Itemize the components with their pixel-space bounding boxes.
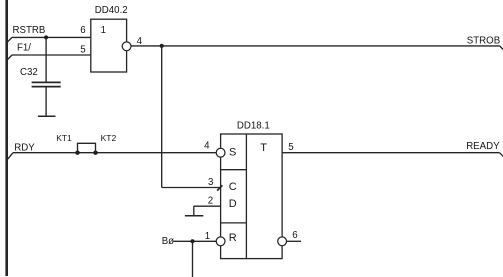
trigger DD18.1 body	[221, 134, 283, 259]
svg-text:DD18.1: DD18.1	[237, 120, 270, 131]
wire DD18.1 pin 5 output to READY	[282, 152, 500, 154]
wire F1/ to DD40.2 pin 5	[12, 54, 91, 56]
svg-text:F1/: F1/	[17, 43, 31, 54]
node junction on RSTRB wire	[44, 35, 48, 39]
contact bracket between KT1 and KT2	[78, 143, 96, 152]
bus (left vertical bus line)	[5, 0, 8, 276]
svg-text:READY: READY	[466, 141, 500, 152]
wire B0 to R input	[174, 240, 217, 242]
wire STROB bus exit diagonal	[500, 46, 503, 51]
wire F1/ bus entry diagonal	[7, 55, 12, 60]
node junction on STROB wire	[160, 44, 164, 48]
svg-text:6: 6	[80, 25, 85, 36]
svg-text:D: D	[229, 198, 237, 210]
contact KT1 dot	[75, 151, 79, 155]
wire junction down to C input	[161, 46, 163, 188]
pin 4 inversion bubble of DD40.2	[122, 42, 131, 51]
svg-text:2: 2	[208, 195, 213, 206]
svg-text:T: T	[260, 142, 267, 154]
svg-text:4: 4	[137, 36, 143, 47]
wire DD40.2 output to STROB	[131, 45, 500, 47]
DD18.1 inner divider vertical	[245, 134, 247, 259]
ground (under C32)	[38, 115, 56, 117]
svg-text:RSTRB: RSTRB	[13, 25, 46, 36]
svg-text:Bø: Bø	[162, 236, 174, 247]
wire C32 to ground	[45, 87, 47, 116]
dynamic input slash at C	[217, 185, 222, 190]
svg-text:C32: C32	[20, 67, 38, 78]
svg-text:4: 4	[204, 141, 210, 152]
contact KT2 dot	[93, 151, 97, 155]
ground (at D input)	[185, 215, 203, 217]
wire READY bus exit diagonal	[500, 153, 503, 158]
DD18.1 divider above R cell	[221, 222, 247, 224]
wire pin 6 stub	[287, 240, 302, 242]
DD18.1 divider under S cell	[221, 169, 247, 171]
logic gate DD40.2 (inverter) body	[91, 19, 127, 72]
svg-text:5: 5	[288, 142, 293, 153]
svg-text:KT1: KT1	[56, 133, 72, 143]
svg-text:3: 3	[208, 177, 213, 188]
svg-text:C: C	[229, 181, 237, 193]
wire RDY through KT1 KT2 to S input	[13, 152, 216, 154]
svg-text:DD40.2: DD40.2	[95, 5, 128, 16]
svg-text:RDY: RDY	[14, 142, 35, 153]
wire RSTRB bus entry diagonal	[7, 37, 12, 42]
pin 4 inversion bubble at S input	[216, 148, 225, 157]
wire D input	[194, 205, 221, 207]
svg-text:R: R	[229, 232, 237, 244]
svg-text:KT2: KT2	[101, 133, 117, 143]
wire RDY bus entry diagonal	[7, 153, 13, 161]
wire junction down from R wire	[192, 241, 194, 277]
wire RSTRB to DD40.2 pin 6	[12, 36, 91, 38]
pin 1 inversion bubble at R input	[216, 237, 225, 246]
pin 6 inversion bubble at DD18.1 bottom output	[278, 237, 287, 246]
svg-text:1: 1	[101, 25, 106, 36]
svg-text:1: 1	[205, 231, 210, 242]
svg-text:S: S	[229, 147, 236, 159]
wire to DD18.1 pin 3 (C input)	[162, 187, 220, 189]
wire D input down to ground	[193, 206, 195, 216]
capacitor C32 plates	[32, 82, 61, 86]
svg-text:STROB: STROB	[467, 35, 500, 46]
node junction on R wire	[191, 239, 195, 243]
wire junction down to C32	[45, 37, 47, 81]
svg-text:5: 5	[80, 45, 85, 56]
svg-text:6: 6	[292, 230, 297, 241]
